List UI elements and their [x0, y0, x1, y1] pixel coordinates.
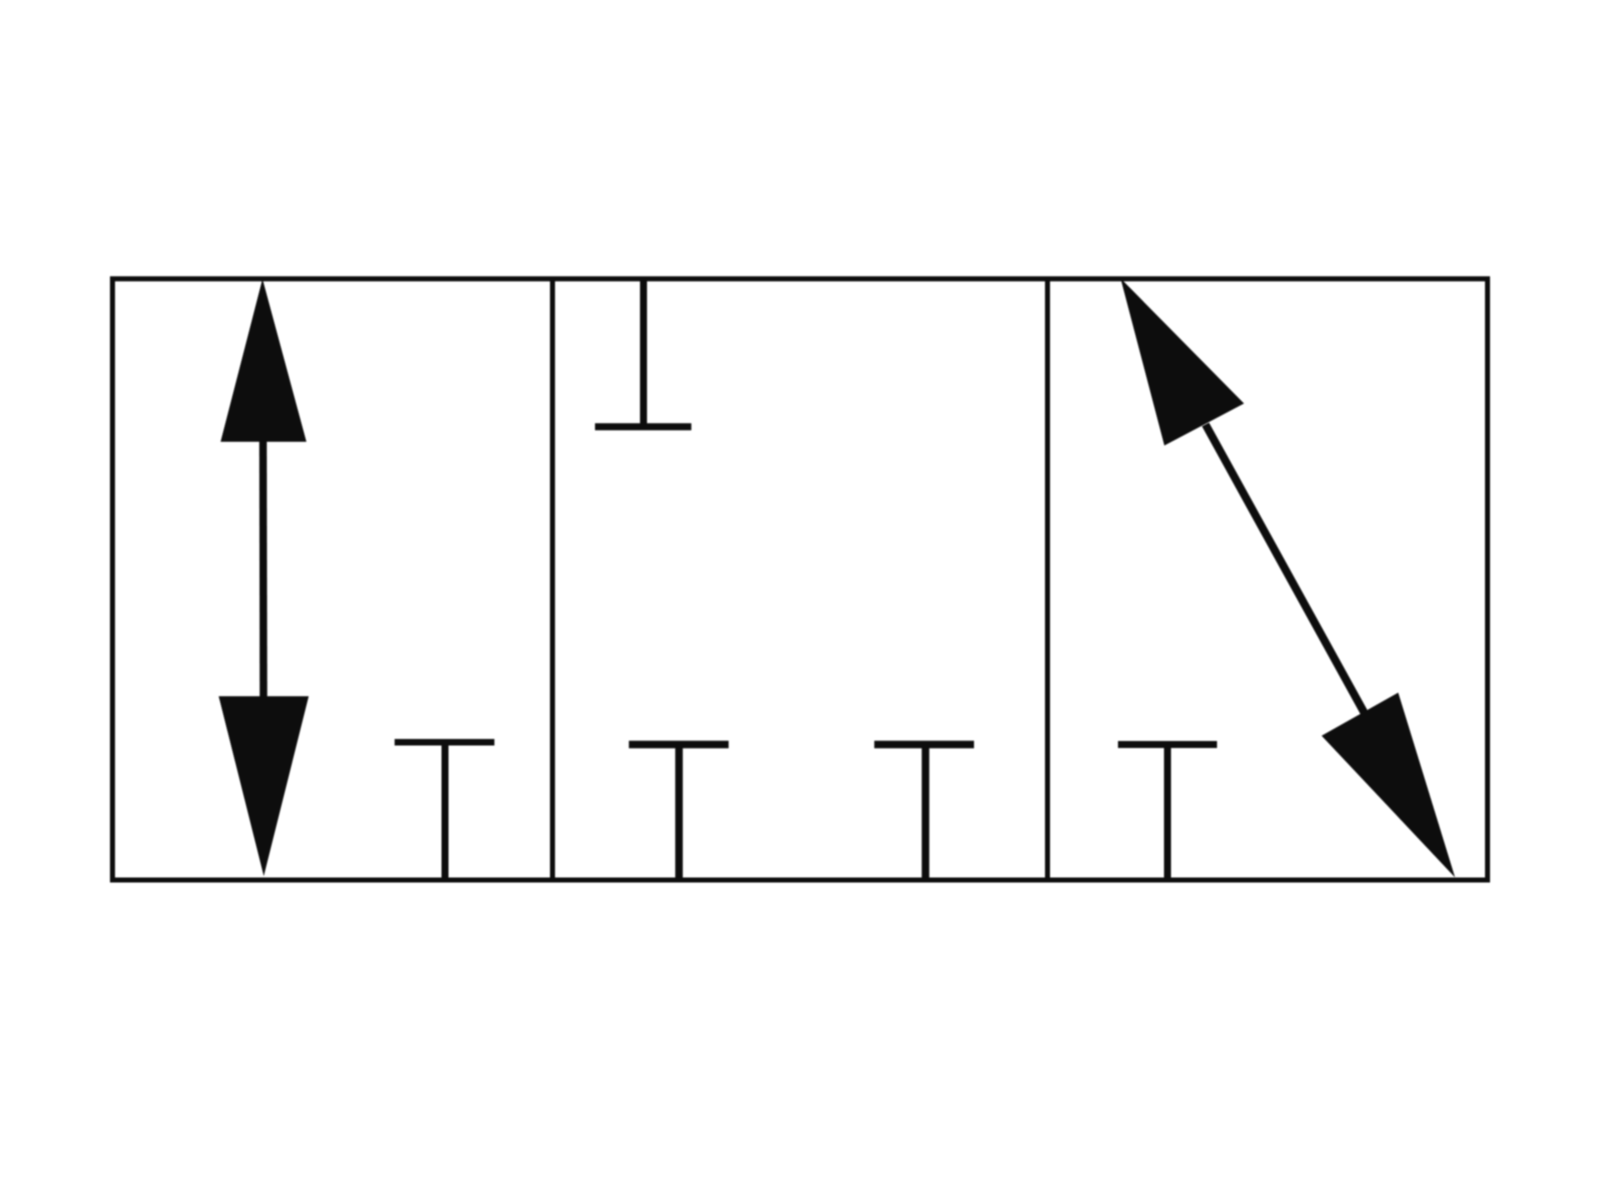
- blocked port T4 stem (centre position, bottom right): [922, 744, 930, 879]
- flow path arrow stem (left position, vertical bidirectional): [259, 430, 267, 706]
- valve body outer box (3-position envelope): [113, 279, 1488, 880]
- blocked port T3 stem (centre position, bottom left): [675, 744, 683, 879]
- blocked port T1 stem (left position, bottom): [442, 742, 449, 879]
- flow path arrowhead up-left (right position): [1121, 278, 1244, 445]
- flow path arrowhead down-right (right position): [1322, 693, 1455, 878]
- blocked port T5 crossbar (right position, bottom left): [1118, 741, 1217, 748]
- blocked port T2 stem (centre position, top): [640, 280, 647, 427]
- blocked port T3 crossbar (centre position, bottom left): [629, 741, 729, 749]
- blocked port T1 crossbar (left position, bottom): [395, 739, 495, 746]
- flow path arrowhead up (left position): [221, 279, 307, 442]
- flow path arrow stem (right position, diagonal bidirectional): [1206, 425, 1365, 714]
- blocked port T4 crossbar (centre position, bottom right): [874, 741, 974, 749]
- position divider line 1: [550, 279, 555, 880]
- flow path arrowhead down (left position): [219, 696, 309, 876]
- blocked port T5 stem (right position, bottom left): [1164, 744, 1171, 879]
- blocked port T2 crossbar (centre position, top): [595, 423, 691, 430]
- position divider line 2: [1045, 279, 1050, 880]
